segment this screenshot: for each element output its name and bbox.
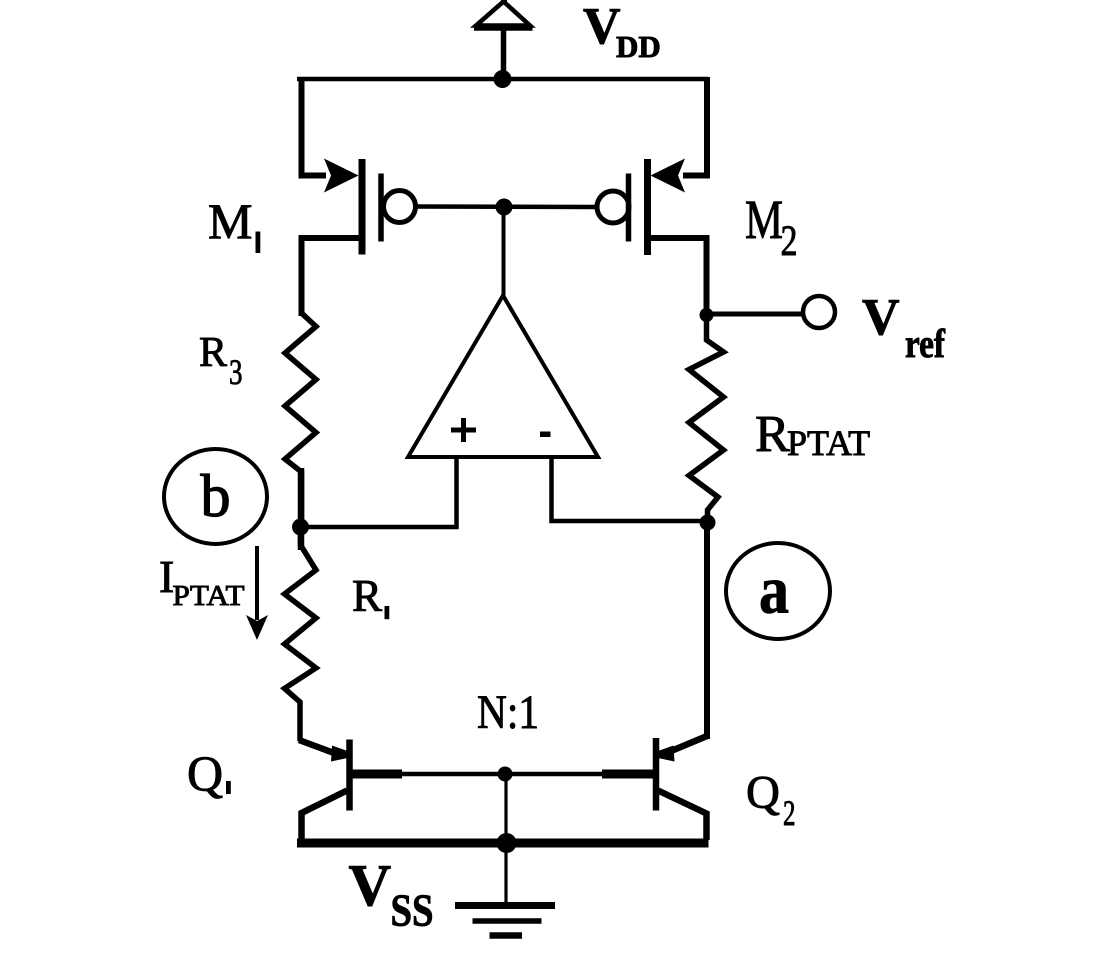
svg-text:R: R xyxy=(199,330,227,376)
label V_DD xyxy=(583,0,661,64)
label Q1 xyxy=(187,745,231,801)
svg-text:2: 2 xyxy=(781,218,798,265)
Q2 emitter lead with arrow xyxy=(664,736,707,754)
node a junction dot xyxy=(700,515,716,531)
M2 drain lead xyxy=(648,238,707,316)
node b junction dot xyxy=(292,519,309,536)
svg-text:a: a xyxy=(759,552,789,628)
svg-text:SS: SS xyxy=(391,885,434,936)
Q2 base bar xyxy=(653,738,660,811)
Q2 collector lead xyxy=(658,791,707,841)
Q1 base bar xyxy=(346,740,353,811)
M2 channel bar xyxy=(644,159,651,255)
transistor Q2 (PNP) xyxy=(602,736,707,840)
svg-text:V: V xyxy=(583,0,621,55)
wire: top VDD rail xyxy=(297,77,708,82)
Q1 collector lead xyxy=(302,791,348,841)
wire: base node to ground stem xyxy=(504,774,507,903)
svg-text:Q: Q xyxy=(746,767,780,819)
transistor M2 (PMOS) xyxy=(597,77,707,316)
svg-text:R: R xyxy=(755,406,790,463)
wire: bottom VSS rail xyxy=(297,839,709,848)
Q2 base lead stub xyxy=(602,770,656,779)
M1 channel bar xyxy=(359,159,366,255)
svg-text:N:1: N:1 xyxy=(477,686,539,739)
M1 gate bubble xyxy=(384,191,416,223)
M1 source arrow xyxy=(324,159,359,193)
svg-text:PTAT: PTAT xyxy=(787,423,870,463)
junction dot on VSS rail xyxy=(497,833,517,853)
label M1 xyxy=(208,193,260,253)
wire: gate line M1-M2 xyxy=(416,204,598,209)
wire: base line Q1-Q2 xyxy=(401,772,602,777)
M1 drain lead xyxy=(302,238,363,316)
svg-text:b: b xyxy=(201,463,231,529)
label M2 xyxy=(745,189,798,265)
svg-text:PTAT: PTAT xyxy=(173,580,245,612)
op-amp U1 xyxy=(408,296,598,458)
V_ref terminal circle xyxy=(803,296,835,328)
label V_ref xyxy=(862,289,946,366)
svg-text:2: 2 xyxy=(783,793,796,833)
junction dot gate node xyxy=(496,199,513,216)
wire: op-amp + input to node b xyxy=(299,457,457,527)
M2 gate bubble xyxy=(597,191,629,223)
svg-text:R: R xyxy=(352,571,382,621)
wire: node a to Q2 emitter xyxy=(704,523,710,739)
M2 source arrow xyxy=(651,159,686,193)
resistor R3 xyxy=(285,238,316,527)
wire: op-amp - input to node a xyxy=(552,457,710,521)
op-amp minus sign xyxy=(540,432,551,438)
Q1 base lead stub xyxy=(350,770,403,779)
svg-text:M: M xyxy=(208,193,252,249)
junction dot base node xyxy=(498,767,513,782)
label V_SS xyxy=(349,852,434,936)
current arrow I_PTAT xyxy=(246,546,268,640)
svg-text:DD: DD xyxy=(616,29,661,64)
label R3 xyxy=(199,330,243,392)
svg-text:ref: ref xyxy=(905,321,946,366)
svg-text:V: V xyxy=(349,852,392,918)
junction dot on VDD rail xyxy=(494,70,512,88)
M2 gate bar xyxy=(626,174,632,242)
power VDD symbol xyxy=(474,0,533,79)
Q1 emitter lead with arrow xyxy=(299,740,342,756)
svg-text:3: 3 xyxy=(229,352,243,392)
wire: R3 to R1 through node b xyxy=(298,468,305,550)
node a circle xyxy=(726,543,830,639)
transistor Q1 (PNP) xyxy=(299,740,402,841)
transistor M1 (PMOS) xyxy=(302,159,416,317)
label Q2 xyxy=(746,767,796,834)
wire: left branch from rail to M1 source xyxy=(302,77,327,176)
resistor R_PTAT xyxy=(689,315,724,523)
M2 source lead wire xyxy=(683,77,707,176)
label R_PTAT xyxy=(755,406,870,463)
ground symbol xyxy=(455,906,555,936)
svg-text:M: M xyxy=(745,189,783,250)
resistor R1 xyxy=(285,527,317,741)
op-amp plus sign xyxy=(451,418,476,442)
wire: V_ref tap xyxy=(707,312,803,317)
node b circle xyxy=(164,449,267,544)
M1 gate bar xyxy=(378,174,384,242)
wire: op-amp output to gates xyxy=(502,207,506,296)
label I_PTAT xyxy=(159,551,245,612)
junction dot V_ref node xyxy=(700,308,714,322)
svg-text:Q: Q xyxy=(187,745,223,801)
svg-text:V: V xyxy=(862,289,900,346)
label R1 xyxy=(352,571,389,621)
